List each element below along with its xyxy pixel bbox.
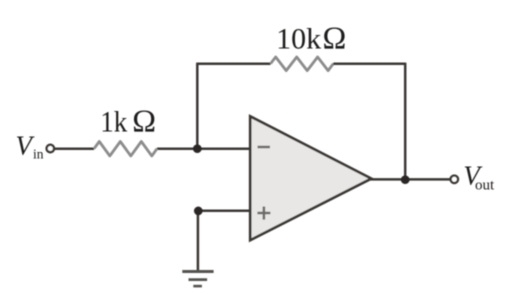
wire: vertical from node A up to feedback branch [196,64,199,149]
op-amp U1 [250,116,371,240]
op-amp plus input label [257,207,270,220]
ground [182,272,213,287]
svg-text:in: in [33,147,44,162]
node A junction dot [193,144,202,153]
wire: non-inverting input to ground node [198,210,250,213]
resistor R2 10k ohm [271,57,334,71]
op-amp minus input label [258,146,271,149]
svg-text:10k: 10k [276,23,321,56]
wire: between 1k resistor and node A [157,147,250,150]
Vin terminal (open circle) [47,145,55,153]
svg-text:Ω: Ω [323,19,347,55]
svg-text:Ω: Ω [132,103,156,139]
resistor R1 1k ohm [94,142,157,156]
wire: top feedback right segment [333,62,405,65]
Vout terminal (open circle) [451,176,459,184]
wire: op-amp output to Vout terminal [371,178,450,181]
wire: input from Vin terminal to op-amp inverting input [55,147,94,150]
wire: top feedback left segment [196,62,270,65]
wire: vertical down to output node [404,63,407,180]
svg-text:out: out [475,178,495,194]
ground node junction dot [194,207,203,216]
svg-text:1k: 1k [100,105,127,138]
output node junction dot [401,175,410,184]
wire: ground drop [197,211,200,270]
